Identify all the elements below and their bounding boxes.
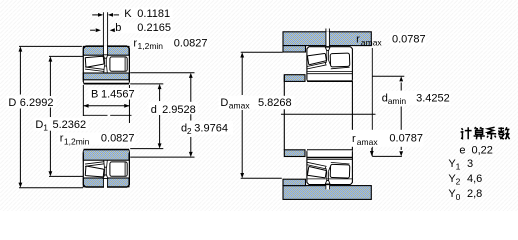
svg-text:0.0787: 0.0787 bbox=[392, 34, 426, 46]
svg-text:D: D bbox=[220, 97, 228, 109]
svg-text:0.1181: 0.1181 bbox=[137, 8, 170, 20]
svg-text:D: D bbox=[8, 97, 16, 109]
svg-text:1.4567: 1.4567 bbox=[101, 88, 135, 100]
svg-text:1,2min: 1,2min bbox=[64, 136, 90, 146]
svg-text:amax: amax bbox=[229, 101, 251, 111]
svg-text:2: 2 bbox=[456, 177, 461, 187]
svg-text:0.0787: 0.0787 bbox=[389, 132, 423, 144]
svg-text:0.0827: 0.0827 bbox=[101, 133, 135, 145]
svg-text:2,8: 2,8 bbox=[467, 188, 482, 200]
svg-text:3: 3 bbox=[467, 158, 473, 170]
svg-text:2: 2 bbox=[187, 126, 192, 136]
svg-text:6.2992: 6.2992 bbox=[20, 97, 54, 109]
svg-text:3.4252: 3.4252 bbox=[416, 92, 450, 104]
svg-text:D: D bbox=[35, 119, 43, 131]
svg-text:4,6: 4,6 bbox=[467, 173, 482, 185]
svg-text:5.8268: 5.8268 bbox=[258, 97, 292, 109]
svg-text:2.9528: 2.9528 bbox=[162, 104, 196, 116]
svg-text:d: d bbox=[151, 104, 157, 116]
svg-text:0.0827: 0.0827 bbox=[174, 37, 208, 49]
svg-text:r: r bbox=[356, 34, 360, 46]
svg-text:1,2min: 1,2min bbox=[138, 41, 164, 51]
svg-text:e: e bbox=[459, 144, 465, 156]
svg-text:0.2165: 0.2165 bbox=[137, 22, 171, 34]
svg-text:5.2362: 5.2362 bbox=[53, 119, 87, 131]
svg-text:amax: amax bbox=[361, 37, 383, 47]
svg-text:3.9764: 3.9764 bbox=[194, 122, 228, 134]
svg-text:0,22: 0,22 bbox=[472, 144, 493, 156]
svg-text:r: r bbox=[352, 133, 356, 145]
svg-text:B: B bbox=[91, 88, 98, 100]
svg-text:0: 0 bbox=[456, 192, 461, 202]
svg-text:b: b bbox=[115, 22, 121, 34]
svg-text:1: 1 bbox=[456, 162, 461, 172]
svg-text:amax: amax bbox=[357, 137, 379, 147]
svg-text:1: 1 bbox=[43, 123, 48, 133]
svg-text:amin: amin bbox=[388, 96, 407, 106]
svg-text:K: K bbox=[124, 8, 132, 20]
